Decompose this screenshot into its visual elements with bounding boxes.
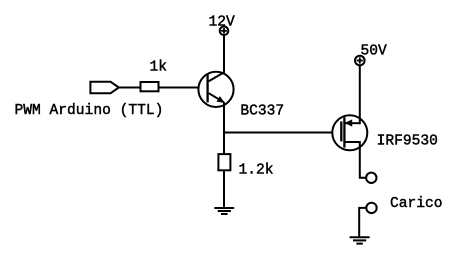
wire terminal to ground [359,208,366,237]
mosfet M1 drain horizontal [345,122,359,124]
svg-text:1.2k: 1.2k [239,163,274,179]
svg-text:Carico: Carico [390,196,443,212]
resistor 1.2k [218,154,230,170]
transistor Q1 base bar [206,74,208,103]
wire R 1.2k to ground [223,170,225,208]
svg-text:12V: 12V [209,15,236,31]
wire Q1 emitter down through node to R 1.2k [223,102,225,154]
ground below R 1.2k [214,208,234,214]
ground bottom right [350,237,370,243]
supply +12V symbol [220,27,229,36]
wire node to M1 gate [224,132,341,134]
wire 12V to Q1 collector [223,36,225,73]
mosfet M1 IRF9530 body circle [332,115,367,150]
wire R 1k to Q1 base [159,87,200,89]
wire 50V to M1 drain [359,66,361,125]
mosfet M1 source horizontal [344,141,359,143]
terminal load - [366,203,376,213]
svg-text:IRF9530: IRF9530 [377,134,438,150]
supply +50V symbol [355,56,365,66]
mosfet M1 gate bar [340,121,342,141]
resistor 1k [141,82,159,91]
wire tag to R 1k [119,87,141,89]
wire M1 source down [360,141,367,178]
svg-text:50V: 50V [361,44,388,60]
svg-text:PWM Arduino (TTL): PWM Arduino (TTL) [15,103,164,119]
transistor Q1 emitter diagonal [209,93,224,102]
transistor Q1 BC337 body circle [198,72,233,107]
connector PWM Arduino input tag [90,82,118,93]
mosfet M1 arrow [345,119,353,126]
svg-text:1k: 1k [150,60,168,76]
svg-text:BC337: BC337 [240,104,284,120]
mosfet M1 channel bar [343,117,345,147]
transistor Q1 collector diagonal [209,72,224,81]
terminal load + [366,173,376,183]
transistor Q1 emitter arrowhead [217,96,226,103]
